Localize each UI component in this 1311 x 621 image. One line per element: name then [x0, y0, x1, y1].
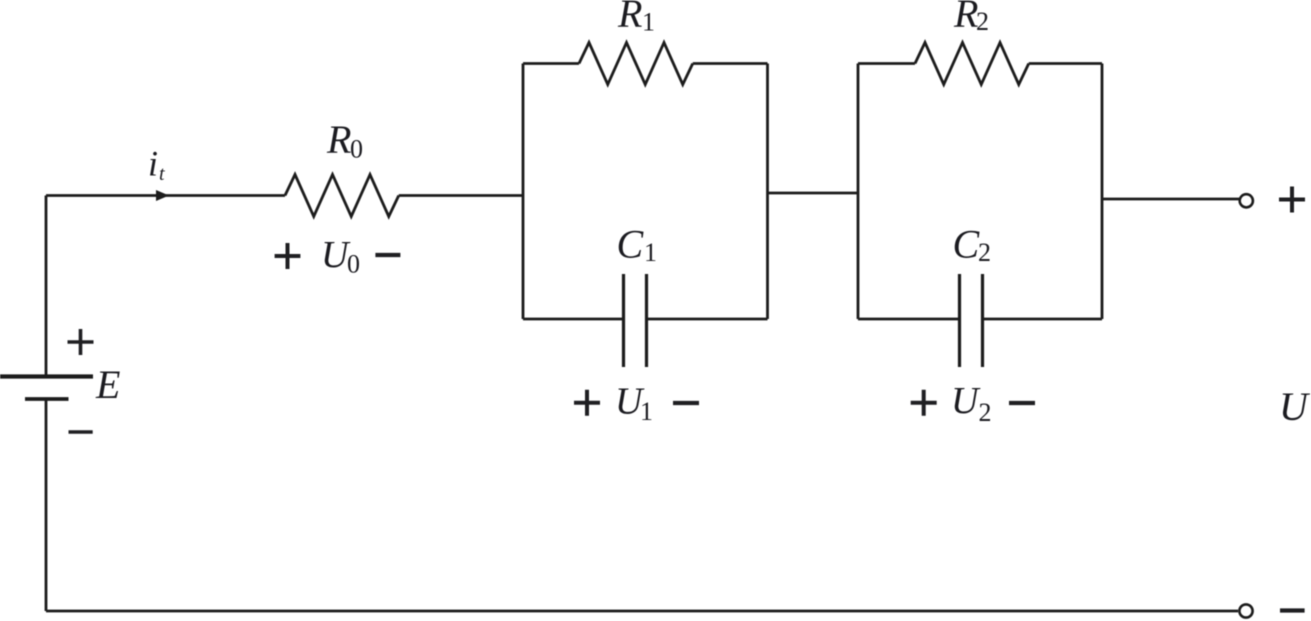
svg-text:R: R [326, 117, 351, 162]
svg-text:1: 1 [642, 8, 655, 37]
svg-text:C: C [617, 222, 645, 267]
svg-text:0: 0 [350, 135, 363, 164]
svg-text:1: 1 [640, 397, 653, 426]
svg-text:C: C [953, 222, 981, 267]
svg-text:i: i [148, 144, 158, 184]
svg-text:R: R [953, 0, 978, 36]
svg-text:R: R [617, 0, 642, 36]
svg-text:E: E [95, 362, 120, 407]
svg-text:1: 1 [644, 238, 657, 267]
svg-text:0: 0 [347, 250, 360, 279]
svg-text:U: U [951, 380, 981, 422]
svg-text:2: 2 [976, 7, 989, 36]
svg-text:t: t [159, 163, 165, 185]
svg-text:U: U [1279, 384, 1311, 429]
svg-text:2: 2 [979, 398, 992, 427]
svg-text:2: 2 [978, 238, 991, 267]
